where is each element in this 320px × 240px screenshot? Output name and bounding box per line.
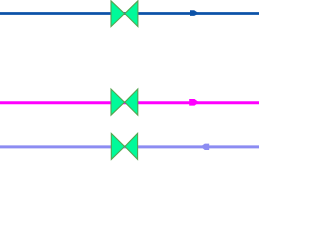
flow arrow A2 (points right, magenta) — [189, 99, 198, 106]
valve V2 (bowtie on magenta pipe) — [111, 89, 138, 115]
pipe line P1 (dark blue) — [0, 12, 259, 15]
pipe line P3 (periwinkle) — [0, 145, 259, 148]
flow arrow A3 (points left, periwinkle) — [202, 144, 210, 150]
flow arrow A1 (points right, blue) — [190, 10, 198, 16]
valve V3 (bowtie on periwinkle pipe) — [111, 133, 137, 159]
valve V1 (bowtie on blue pipe) — [111, 1, 138, 27]
pipe line P2 (magenta) — [0, 101, 259, 104]
